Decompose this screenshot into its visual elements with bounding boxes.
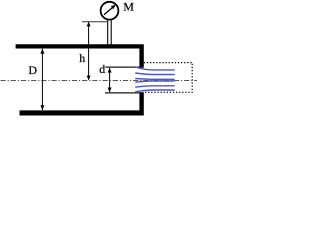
streamline 2 (135, 73, 174, 75)
dim D line (41, 49, 43, 110)
nozzle tube top line (105, 66, 140, 68)
pipe top wall with end plate (16, 44, 144, 67)
gauge needle arrowhead (111, 5, 116, 10)
dim d upper arrowhead (108, 68, 112, 73)
streamline 4 (135, 81, 174, 82)
nozzle tube bottom line (105, 92, 140, 94)
gauge stem left line (107, 20, 109, 44)
streamline 3 (135, 78, 174, 81)
streamline 5 (135, 86, 174, 87)
streamline 6 (bottom) (135, 90, 175, 92)
svg-text:M: M (123, 0, 134, 14)
dim h lower arrowhead (87, 76, 91, 81)
svg-text:d: d (99, 62, 105, 76)
svg-text:D: D (28, 63, 37, 77)
gauge needle (104, 7, 113, 15)
dim d line (109, 68, 111, 92)
pipe bottom wall with end plate (20, 92, 144, 115)
dim h line (88, 22, 90, 80)
dim h upper arrowhead (87, 22, 91, 27)
gauge stem right line (110, 20, 112, 44)
centerline (pipe axis, dash-dot) (1, 80, 198, 82)
dim D lower arrowhead (40, 105, 44, 110)
dim D upper arrowhead (40, 49, 44, 54)
control volume dotted box (144, 63, 192, 93)
h extension line (gauge level) (82, 21, 108, 23)
svg-text:h: h (79, 51, 85, 65)
streamline 1 (top) (135, 67, 175, 70)
pressure gauge M body (101, 2, 119, 20)
dim d lower arrowhead (108, 88, 112, 93)
